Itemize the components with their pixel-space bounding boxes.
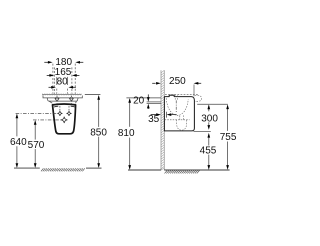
- svg-text:850: 850: [90, 128, 107, 139]
- svg-text:35: 35: [148, 114, 160, 125]
- svg-text:300: 300: [201, 114, 218, 125]
- svg-text:755: 755: [220, 132, 237, 143]
- svg-text:640: 640: [10, 137, 27, 148]
- svg-text:455: 455: [200, 145, 217, 156]
- svg-text:80: 80: [57, 76, 69, 87]
- svg-text:20: 20: [133, 96, 145, 107]
- svg-text:810: 810: [118, 128, 135, 139]
- svg-text:250: 250: [169, 76, 186, 87]
- svg-text:570: 570: [28, 140, 45, 151]
